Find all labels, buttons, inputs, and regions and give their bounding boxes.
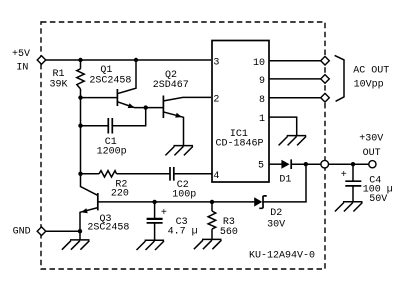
terminal GND diamond [37, 227, 46, 236]
resistor R2 [99, 171, 117, 177]
wire D1 to border [291, 163, 321, 165]
wire pin5 to D1 [269, 163, 282, 165]
svg-text:+30V: +30V [359, 133, 383, 144]
wire R1 top stub [80, 60, 82, 69]
ground C4 [335, 202, 363, 212]
svg-text:AC OUT: AC OUT [353, 66, 389, 77]
svg-text:100p: 100p [172, 189, 196, 200]
terminal AC diamond pin10 [321, 56, 330, 65]
wire C4 stem top [352, 164, 354, 181]
svg-text:4: 4 [213, 171, 219, 182]
wire R2 left [81, 173, 100, 175]
Q2 emitter arrow [175, 113, 182, 118]
svg-text:3: 3 [213, 57, 219, 68]
terminal AC diamond pin8 [321, 93, 330, 102]
terminal border circle +30V [321, 160, 329, 168]
wire D2 to output node [263, 164, 306, 202]
diode D2 zener [254, 197, 262, 206]
svg-text:1200p: 1200p [97, 147, 127, 158]
wire +5V top rail [46, 59, 212, 61]
wire pin9 [269, 78, 321, 80]
wire pin1 to ground [269, 117, 297, 135]
svg-text:+5V: +5V [12, 49, 30, 60]
wire Q1 base [81, 97, 117, 99]
wire border to OUT terminal [329, 163, 369, 165]
svg-text:2: 2 [213, 95, 219, 106]
wire Q2 emitter [163, 112, 184, 145]
wire Q1 emitter node down to C1 [112, 108, 145, 126]
svg-text:2SD467: 2SD467 [153, 80, 189, 91]
wire R3 top stub [211, 202, 213, 211]
svg-text:Q1: Q1 [100, 65, 112, 76]
svg-text:GND: GND [13, 226, 31, 237]
wire Q1 emitter to Q2 base [146, 107, 163, 109]
svg-text:IN: IN [16, 62, 28, 73]
wire ground stem Q3 [79, 231, 81, 240]
svg-text:+: + [161, 208, 167, 219]
wire pin8 [269, 97, 321, 99]
svg-text:D2: D2 [270, 208, 282, 219]
node GND junction [78, 229, 82, 233]
capacitor C3 [147, 218, 163, 220]
ground R3 [194, 239, 222, 249]
svg-text:50V: 50V [369, 194, 387, 205]
wire Q1 collector [117, 60, 136, 94]
wire Q1 emitter [117, 102, 146, 108]
Q1 emitter arrow [128, 103, 135, 108]
svg-text:2SC2458: 2SC2458 [87, 223, 129, 234]
node R3 top [210, 200, 214, 204]
terminal AC diamond pin9 [321, 75, 330, 84]
transistor Q3 bar [97, 193, 99, 210]
svg-text:220: 220 [111, 189, 129, 200]
svg-text:10Vpp: 10Vpp [354, 80, 384, 91]
terminal +5V IN diamond [37, 56, 46, 65]
svg-text:9: 9 [259, 76, 265, 87]
wire R3 bottom stub [211, 229, 213, 239]
IC U1 box CD-1846P [212, 41, 269, 183]
svg-text:4.7 µ: 4.7 µ [168, 227, 198, 238]
ground IC pin1 [279, 136, 307, 146]
svg-text:39K: 39K [49, 79, 67, 90]
wire Q3 collector rail [98, 201, 255, 203]
wire C1 left [81, 125, 109, 127]
dashed enclosure border [41, 22, 325, 269]
wire left rail / Q3 base [81, 89, 98, 195]
svg-text:KU-12A94V-0: KU-12A94V-0 [249, 251, 315, 262]
wire C2 to pin4 [174, 173, 212, 175]
svg-text:30V: 30V [267, 219, 285, 230]
wire R2 to C2 [117, 173, 171, 175]
terminal OUT circle [369, 161, 376, 168]
resistor R3 [208, 211, 216, 229]
wire pin10 [269, 60, 321, 62]
svg-text:5: 5 [258, 161, 264, 172]
transistor Q2 bar [162, 96, 164, 119]
wire C4 stem bottom [352, 186, 354, 202]
wire C3 bottom stem [154, 223, 156, 240]
node D1 output [304, 162, 308, 166]
wire Q2 collector to pin2 [163, 97, 211, 101]
ground C3 [137, 240, 165, 250]
svg-text:10: 10 [253, 58, 265, 69]
ground Q2 emitter [165, 146, 193, 156]
svg-text:D1: D1 [279, 175, 291, 186]
node Q1 emitter [144, 105, 148, 109]
capacitor C4 [345, 181, 361, 186]
svg-text:1: 1 [259, 114, 265, 125]
svg-text:2SC2458: 2SC2458 [89, 76, 131, 87]
svg-text:OUT: OUT [363, 148, 381, 159]
Q3 emitter arrow [81, 208, 88, 213]
diode D1 [281, 160, 289, 169]
wire GND lead [46, 230, 81, 232]
svg-text:560: 560 [220, 227, 238, 238]
node C3 top wire stem [154, 202, 156, 218]
bracket AC OUT [335, 55, 344, 101]
node Q1 collector top [134, 58, 138, 62]
svg-text:CD-1846P: CD-1846P [215, 139, 263, 150]
wire Q3 emitter [80, 208, 98, 232]
svg-text:+: + [341, 170, 347, 181]
ground Q3 emitter [62, 240, 90, 250]
resistor R1 [77, 69, 84, 89]
node C1 left [78, 124, 82, 128]
svg-text:8: 8 [259, 95, 265, 106]
node C4 top [351, 162, 355, 166]
transistor Q1 bar [116, 89, 118, 106]
capacitor C2 [170, 167, 174, 181]
node R1 top [78, 58, 82, 62]
node Q1 base [78, 95, 82, 99]
node C3 top [152, 200, 156, 204]
node R2 left [78, 172, 82, 176]
capacitor C1 [108, 118, 112, 134]
